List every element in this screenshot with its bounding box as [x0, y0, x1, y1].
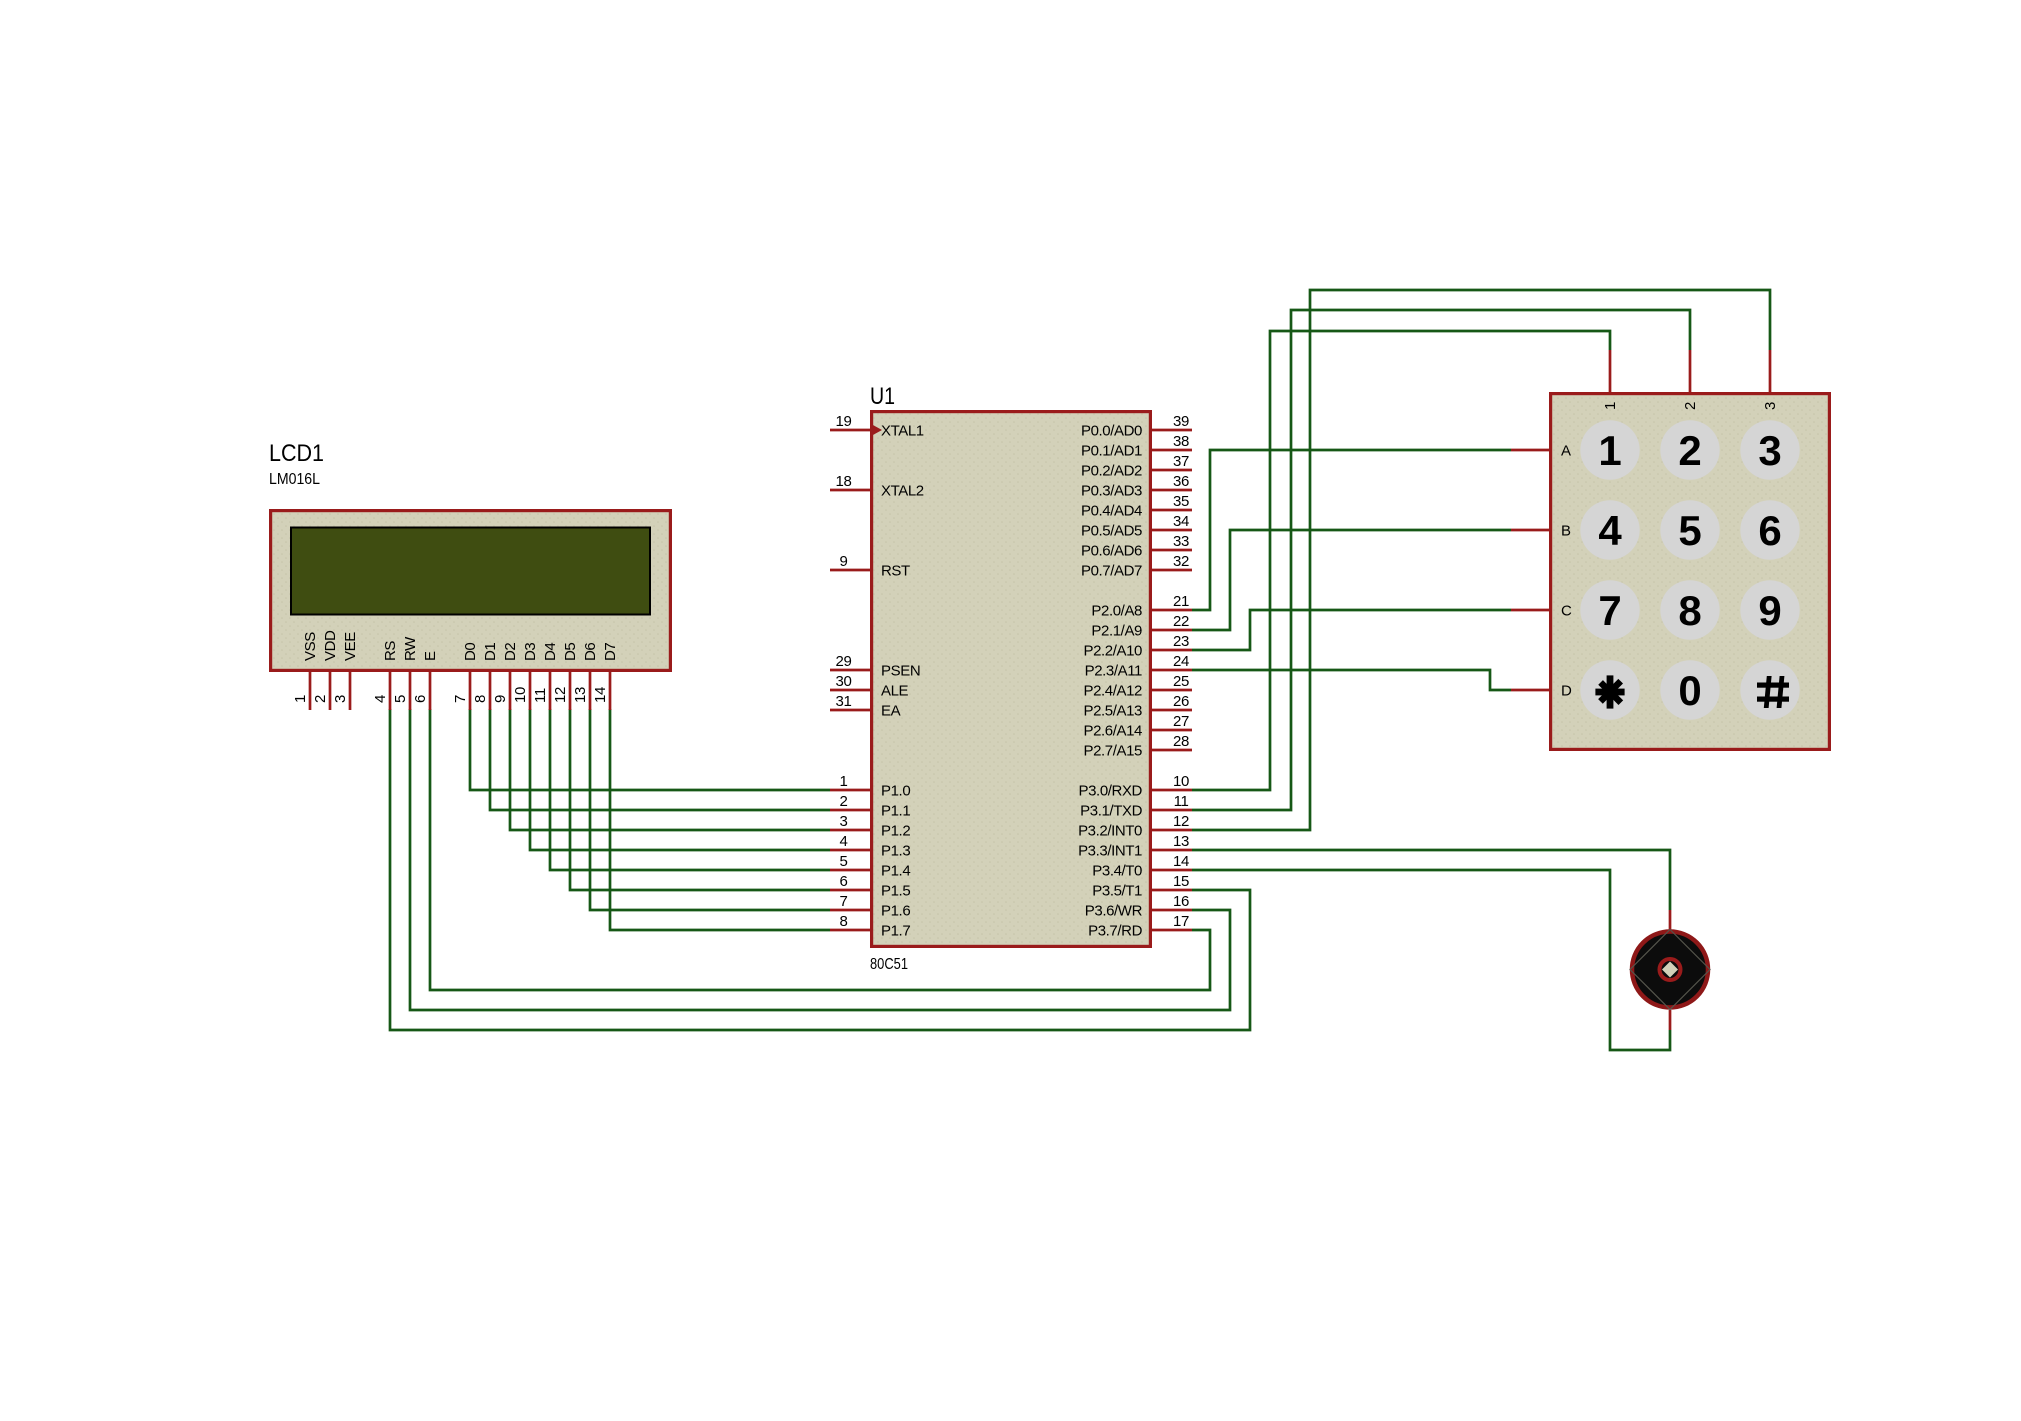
U1 pin 7 (P1.6)	[830, 893, 910, 920]
svg-text:E: E	[422, 651, 439, 661]
svg-text:P0.4/AD4: P0.4/AD4	[1081, 503, 1142, 520]
svg-text:P2.7/A15: P2.7/A15	[1083, 743, 1142, 760]
svg-text:4: 4	[1598, 507, 1622, 554]
motor top pin	[1669, 910, 1672, 930]
svg-text:3: 3	[1758, 427, 1781, 474]
svg-text:3: 3	[332, 695, 349, 703]
svg-text:34: 34	[1173, 513, 1189, 530]
LCD1 pin 1 (VSS)	[292, 632, 319, 710]
svg-text:D6: D6	[582, 643, 599, 661]
LCD1 pin 8 (D1)	[472, 643, 499, 710]
svg-text:D7: D7	[602, 643, 619, 661]
U1 pin 21 (P2.0/A8)	[1091, 593, 1192, 620]
svg-text:RW: RW	[402, 636, 419, 661]
LCD1 pin 5 (RW)	[392, 636, 419, 710]
keypad column pin 1	[1602, 350, 1619, 410]
keypad key 7	[1580, 580, 1639, 639]
svg-text:5: 5	[840, 853, 848, 870]
svg-text:P1.5: P1.5	[881, 883, 910, 900]
svg-text:5: 5	[392, 695, 409, 703]
svg-text:14: 14	[1173, 853, 1189, 870]
svg-text:10: 10	[512, 687, 529, 703]
svg-text:7: 7	[1598, 587, 1621, 634]
wire LCD E to U1 P3.7/RD	[430, 709, 1210, 990]
wire LCD RS to U1 P3.5/T1	[390, 709, 1250, 1030]
U1 pin 33 (P0.6/AD6)	[1081, 533, 1192, 560]
svg-text:1: 1	[292, 695, 309, 703]
keypad column pin 3	[1762, 350, 1779, 410]
wire LCD D6 to U1 P1.6	[590, 709, 830, 910]
svg-text:P0.6/AD6: P0.6/AD6	[1081, 543, 1142, 560]
U1 pin 38 (P0.1/AD1)	[1081, 433, 1192, 460]
svg-text:EA: EA	[881, 703, 901, 720]
wire U1 P2.0/A8 to keypad row A	[1192, 450, 1511, 610]
svg-text:RS: RS	[382, 641, 399, 661]
svg-text:80C51: 80C51	[870, 956, 908, 973]
svg-text:P2.0/A8: P2.0/A8	[1091, 603, 1142, 620]
svg-text:0: 0	[1678, 667, 1701, 714]
keypad key 0	[1660, 660, 1719, 719]
U1 pin 19 (XTAL1)	[830, 413, 924, 440]
U1 pin 32 (P0.7/AD7)	[1081, 553, 1192, 580]
svg-text:33: 33	[1173, 533, 1189, 550]
svg-text:13: 13	[1173, 833, 1189, 850]
wire U1 P3.3/INT1 to motor top	[1192, 850, 1670, 910]
svg-text:6: 6	[1758, 507, 1781, 554]
svg-text:32: 32	[1173, 553, 1189, 570]
svg-text:RST: RST	[881, 563, 910, 580]
U1 body	[872, 412, 1151, 947]
svg-text:6: 6	[840, 873, 848, 890]
svg-text:P0.1/AD1: P0.1/AD1	[1081, 443, 1142, 460]
svg-text:13: 13	[572, 687, 589, 703]
svg-text:4: 4	[840, 833, 848, 850]
U1 pin 22 (P2.1/A9)	[1091, 613, 1192, 640]
svg-text:19: 19	[836, 413, 852, 430]
svg-text:9: 9	[1758, 587, 1781, 634]
U1 pin 1 (P1.0)	[830, 773, 910, 800]
svg-text:30: 30	[836, 673, 852, 690]
wire U1 P3.2/INT0 to keypad column 3	[1192, 290, 1770, 830]
svg-text:P3.2/INT0: P3.2/INT0	[1078, 823, 1142, 840]
svg-text:11: 11	[532, 688, 549, 703]
svg-text:ALE: ALE	[881, 683, 909, 700]
svg-text:P0.5/AD5: P0.5/AD5	[1081, 523, 1142, 540]
svg-text:1: 1	[1602, 402, 1619, 410]
svg-text:8: 8	[1678, 587, 1701, 634]
wire U1 P3.1/TXD to keypad column 2	[1192, 310, 1690, 810]
wire LCD D2 to U1 P1.2	[510, 709, 830, 830]
keypad key 3	[1740, 420, 1799, 479]
svg-text:5: 5	[1678, 507, 1701, 554]
wire LCD D7 to U1 P1.7	[610, 709, 830, 930]
svg-text:D5: D5	[562, 643, 579, 661]
LCD1 pin 10 (D3)	[512, 643, 539, 710]
U1 pin 14 (P3.4/T0)	[1092, 853, 1192, 880]
LCD1 pin 4 (RS)	[372, 641, 399, 710]
svg-text:VSS: VSS	[302, 632, 319, 661]
LCD1 pin 7 (D0)	[452, 643, 479, 710]
svg-text:P0.3/AD3: P0.3/AD3	[1081, 483, 1142, 500]
svg-text:2: 2	[840, 793, 848, 810]
svg-text:P1.1: P1.1	[881, 803, 910, 820]
svg-text:P0.2/AD2: P0.2/AD2	[1081, 463, 1142, 480]
keypad key 5	[1660, 500, 1719, 559]
svg-text:12: 12	[1173, 813, 1189, 830]
svg-text:15: 15	[1173, 873, 1189, 890]
U1 pin 36 (P0.3/AD3)	[1081, 473, 1192, 500]
svg-text:XTAL2: XTAL2	[881, 483, 924, 500]
wire U1 P2.2/A10 to keypad row C	[1192, 610, 1511, 650]
U1 pin 18 (XTAL2)	[830, 473, 924, 500]
svg-text:D0: D0	[462, 643, 479, 661]
keypad key #	[1740, 660, 1799, 719]
keypad key *	[1580, 660, 1639, 719]
U1 pin 39 (P0.0/AD0)	[1081, 413, 1192, 440]
keypad body	[1551, 394, 1830, 750]
svg-text:P1.6: P1.6	[881, 903, 910, 920]
U1 pin 12 (P3.2/INT0)	[1078, 813, 1192, 840]
svg-text:VDD: VDD	[322, 630, 339, 661]
svg-text:7: 7	[452, 695, 469, 703]
svg-text:23: 23	[1173, 633, 1189, 650]
svg-text:35: 35	[1173, 493, 1189, 510]
U1 pin 10 (P3.0/RXD)	[1079, 773, 1193, 800]
svg-text:P2.2/A10: P2.2/A10	[1083, 643, 1142, 660]
wire U1 P3.0/RXD to keypad column 1	[1192, 331, 1610, 790]
svg-text:36: 36	[1173, 473, 1189, 490]
svg-text:28: 28	[1173, 733, 1189, 750]
U1 pin 15 (P3.5/T1)	[1092, 873, 1192, 900]
U1 pin 23 (P2.2/A10)	[1083, 633, 1192, 660]
keypad key 6	[1740, 500, 1799, 559]
svg-text:3: 3	[1762, 402, 1779, 410]
U1 pin 3 (P1.2)	[830, 813, 910, 840]
svg-text:B: B	[1561, 523, 1571, 540]
svg-text:9: 9	[492, 695, 509, 703]
wire LCD D1 to U1 P1.1	[490, 709, 830, 810]
U1 pin 35 (P0.4/AD4)	[1081, 493, 1192, 520]
U1 pin 4 (P1.3)	[830, 833, 910, 860]
svg-text:P3.3/INT1: P3.3/INT1	[1078, 843, 1142, 860]
svg-text:P1.3: P1.3	[881, 843, 910, 860]
svg-text:8: 8	[840, 913, 848, 930]
svg-text:D: D	[1561, 683, 1572, 700]
svg-text:12: 12	[552, 687, 569, 703]
U1 pin 9 (RST)	[830, 553, 910, 580]
svg-text:29: 29	[836, 653, 852, 670]
LCD1 pin 11 (D4)	[532, 643, 559, 710]
wire LCD RW to U1 P3.6/WR	[410, 709, 1230, 1010]
svg-text:P3.4/T0: P3.4/T0	[1092, 863, 1142, 880]
svg-text:2: 2	[1678, 427, 1701, 474]
svg-text:14: 14	[592, 687, 609, 703]
svg-text:39: 39	[1173, 413, 1189, 430]
LCD1 pin 14 (D7)	[592, 643, 619, 710]
LCD1 pin 12 (D5)	[552, 643, 579, 710]
U1 pin 34 (P0.5/AD5)	[1081, 513, 1192, 540]
keypad row pin B	[1511, 523, 1571, 540]
svg-text:LCD1: LCD1	[269, 440, 324, 467]
svg-text:7: 7	[840, 893, 848, 910]
U1 pin 13 (P3.3/INT1)	[1078, 833, 1192, 860]
svg-text:P1.0: P1.0	[881, 783, 910, 800]
wire U1 P2.3/A11 to keypad row D	[1192, 670, 1511, 690]
U1 pin 6 (P1.5)	[830, 873, 910, 900]
keypad row pin D	[1511, 683, 1572, 700]
U1 pin 27 (P2.6/A14)	[1083, 713, 1192, 740]
svg-text:3: 3	[840, 813, 848, 830]
svg-text:21: 21	[1173, 593, 1189, 610]
svg-text:D1: D1	[482, 643, 499, 661]
svg-text:P1.2: P1.2	[881, 823, 910, 840]
svg-text:9: 9	[840, 553, 848, 570]
svg-text:D2: D2	[502, 643, 519, 661]
svg-text:P3.1/TXD: P3.1/TXD	[1080, 803, 1142, 820]
svg-text:25: 25	[1173, 673, 1189, 690]
LCD1 pin 3 (VEE)	[332, 632, 359, 710]
svg-text:P3.7/RD: P3.7/RD	[1088, 923, 1142, 940]
svg-text:D3: D3	[522, 643, 539, 661]
svg-text:P0.0/AD0: P0.0/AD0	[1081, 423, 1142, 440]
LCD1 body	[271, 511, 671, 671]
U1 pin 2 (P1.1)	[830, 793, 910, 820]
svg-text:24: 24	[1173, 653, 1189, 670]
wire U1 P3.4/T0 to motor bottom	[1192, 870, 1670, 1050]
keypad row pin A	[1511, 443, 1571, 460]
svg-text:4: 4	[372, 695, 389, 703]
LCD1 screen	[291, 528, 650, 615]
U1 pin 28 (P2.7/A15)	[1083, 733, 1192, 760]
svg-text:8: 8	[472, 695, 489, 703]
U1 pin 5 (P1.4)	[830, 853, 910, 880]
LCD1 pin 6 (E)	[412, 651, 439, 710]
U1 pin 30 (ALE)	[830, 673, 909, 700]
svg-text:27: 27	[1173, 713, 1189, 730]
svg-text:31: 31	[836, 693, 852, 710]
motor bottom pin	[1669, 1010, 1672, 1030]
svg-text:U1: U1	[870, 383, 895, 410]
svg-text:P2.3/A11: P2.3/A11	[1085, 663, 1142, 680]
svg-text:XTAL1: XTAL1	[881, 423, 924, 440]
svg-text:2: 2	[312, 695, 329, 703]
svg-text:18: 18	[836, 473, 852, 490]
LCD1 pin 13 (D6)	[572, 643, 599, 710]
svg-text:38: 38	[1173, 433, 1189, 450]
keypad row pin C	[1511, 603, 1572, 620]
U1 pin 37 (P0.2/AD2)	[1081, 453, 1192, 480]
svg-text:P1.7: P1.7	[881, 923, 910, 940]
svg-text:P2.4/A12: P2.4/A12	[1083, 683, 1142, 700]
keypad key 8	[1660, 580, 1719, 639]
LCD1 pin 9 (D2)	[492, 643, 519, 710]
keypad key 2	[1660, 420, 1719, 479]
svg-text:11: 11	[1174, 793, 1189, 810]
svg-text:26: 26	[1173, 693, 1189, 710]
svg-text:C: C	[1561, 603, 1572, 620]
keypad column pin 2	[1682, 350, 1699, 410]
svg-text:22: 22	[1173, 613, 1189, 630]
U1 pin 29 (PSEN)	[830, 653, 920, 680]
svg-text:P2.5/A13: P2.5/A13	[1083, 703, 1142, 720]
svg-text:P3.0/RXD: P3.0/RXD	[1079, 783, 1143, 800]
svg-text:VEE: VEE	[342, 632, 359, 661]
svg-text:P2.1/A9: P2.1/A9	[1091, 623, 1142, 640]
svg-text:1: 1	[1598, 427, 1621, 474]
U1 pin 31 (EA)	[830, 693, 901, 720]
svg-text:P1.4: P1.4	[881, 863, 910, 880]
wire LCD D4 to U1 P1.4	[550, 709, 830, 870]
wire LCD D5 to U1 P1.5	[570, 709, 830, 890]
U1 pin 17 (P3.7/RD)	[1088, 913, 1192, 940]
U1 pin 25 (P2.4/A12)	[1083, 673, 1192, 700]
svg-text:PSEN: PSEN	[881, 663, 920, 680]
svg-text:16: 16	[1173, 893, 1189, 910]
svg-text:37: 37	[1173, 453, 1189, 470]
U1 pin 16 (P3.6/WR)	[1085, 893, 1192, 920]
svg-text:6: 6	[412, 695, 429, 703]
wire LCD D0 to U1 P1.0	[470, 709, 830, 790]
svg-text:10: 10	[1173, 773, 1189, 790]
svg-text:P0.7/AD7: P0.7/AD7	[1081, 563, 1142, 580]
U1 pin 24 (P2.3/A11)	[1085, 653, 1192, 680]
LCD1 pin 2 (VDD)	[312, 630, 339, 710]
keypad key 4	[1580, 500, 1639, 559]
wire U1 P2.1/A9 to keypad row B	[1192, 530, 1511, 630]
U1 pin 8 (P1.7)	[830, 913, 910, 940]
svg-text:17: 17	[1173, 913, 1189, 930]
svg-text:1: 1	[840, 773, 848, 790]
keypad key 1	[1580, 420, 1639, 479]
motor body	[1630, 930, 1710, 1010]
keypad key 9	[1740, 580, 1799, 639]
U1 pin 11 (P3.1/TXD)	[1080, 793, 1192, 820]
svg-text:A: A	[1561, 443, 1571, 460]
svg-text:D4: D4	[542, 643, 559, 661]
wire LCD D3 to U1 P1.3	[530, 709, 830, 850]
U1 pin 26 (P2.5/A13)	[1083, 693, 1192, 720]
svg-text:P2.6/A14: P2.6/A14	[1083, 723, 1142, 740]
svg-text:2: 2	[1682, 402, 1699, 410]
svg-text:LM016L: LM016L	[269, 471, 320, 488]
svg-text:P3.5/T1: P3.5/T1	[1092, 883, 1142, 900]
svg-text:P3.6/WR: P3.6/WR	[1085, 903, 1143, 920]
